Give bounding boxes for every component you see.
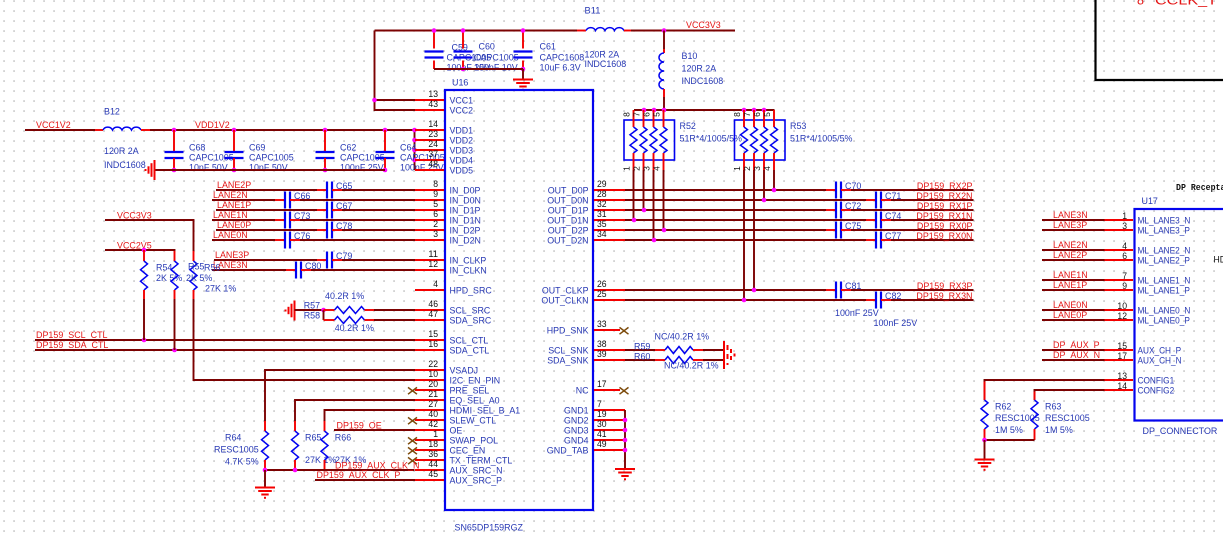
wire R60 to gnd	[703, 359, 724, 361]
wire HDMI_SEL_B_A1	[325, 410, 416, 421]
junction gnd rail x234	[232, 168, 237, 173]
no-connect X HPD_SNK pin 33	[620, 327, 629, 334]
capacitor C69	[225, 130, 294, 174]
svg-text:20: 20	[428, 379, 438, 389]
svg-text:C76: C76	[294, 231, 310, 242]
wire R52 pin1 drop	[633, 170, 635, 220]
junction C60 top	[461, 28, 466, 33]
svg-text:ML_LANE2_P: ML_LANE2_P	[1138, 256, 1190, 267]
wire decoupling ground rail	[155, 169, 386, 171]
junction DP159_RX2P to pack	[772, 188, 777, 193]
svg-text:5: 5	[762, 112, 772, 117]
svg-text:9: 9	[1122, 281, 1127, 291]
junction R57/R58 node	[321, 308, 326, 313]
svg-text:44: 44	[428, 459, 438, 469]
svg-text:100nF 25V: 100nF 25V	[340, 163, 384, 174]
wire R53 pin4 drop	[773, 170, 775, 190]
junction C59 top	[432, 28, 437, 33]
resistor R62	[981, 382, 1040, 441]
svg-text:C67: C67	[336, 201, 352, 212]
inductor B10	[659, 49, 723, 97]
wire VCC1V2	[25, 129, 95, 131]
wire AUX_SRC_N / resistor bottoms	[265, 469, 415, 471]
svg-text:3: 3	[1122, 221, 1127, 231]
junction rail x664	[662, 108, 667, 113]
svg-text:3: 3	[433, 229, 438, 239]
svg-text:32: 32	[597, 199, 607, 209]
svg-text:1: 1	[433, 429, 438, 439]
wire CONFIG1	[985, 380, 1105, 400]
ground below U16	[615, 469, 635, 479]
svg-text:C66: C66	[294, 191, 310, 202]
capacitor C81 value	[835, 308, 879, 319]
svg-text:41: 41	[597, 429, 607, 439]
svg-text:C72: C72	[845, 201, 861, 212]
junction GND pin 440	[623, 438, 628, 443]
svg-text:5: 5	[651, 112, 661, 117]
svg-text:AUX_CH_N: AUX_CH_N	[1138, 356, 1182, 367]
svg-text:36: 36	[428, 449, 438, 459]
net label LANE2N	[213, 190, 248, 201]
junction VDD column y160	[412, 158, 417, 163]
wire B10 bottom	[663, 97, 665, 110]
svg-text:DP_CONNECTOR: DP_CONNECTOR	[1143, 426, 1218, 437]
svg-text:23: 23	[428, 129, 438, 139]
resistor R65	[292, 421, 337, 470]
svg-text:1M 5%: 1M 5%	[1045, 425, 1073, 436]
svg-text:51R*4/1005/5%: 51R*4/1005/5%	[680, 134, 743, 145]
svg-text:R52: R52	[680, 121, 696, 132]
svg-text:R63: R63	[1045, 401, 1061, 412]
svg-text:U17: U17	[1142, 196, 1158, 207]
svg-text:19: 19	[597, 409, 607, 419]
svg-text:7: 7	[1122, 271, 1127, 281]
junction VDD column y140	[412, 138, 417, 143]
svg-text:4: 4	[433, 279, 438, 289]
svg-text:120R 2A: 120R 2A	[104, 146, 139, 157]
wire to ground	[522, 69, 524, 80]
net label LANE1N	[1053, 270, 1088, 281]
capacitor C72	[826, 201, 861, 219]
wire OUT row 200	[625, 199, 974, 201]
net label DP159_RX1P	[917, 201, 973, 212]
svg-text:B10: B10	[682, 51, 698, 62]
svg-text:DP159_RX0N: DP159_RX0N	[916, 231, 972, 242]
svg-text:21: 21	[428, 389, 438, 399]
net label DP159_AUX_CLK_N	[335, 461, 419, 472]
svg-text:10uF 6.3V: 10uF 6.3V	[540, 63, 582, 74]
svg-text:C71: C71	[885, 191, 901, 202]
ground below R64	[255, 488, 275, 498]
wire OUT row 210	[625, 209, 974, 211]
U16 left pin names	[450, 96, 521, 487]
svg-text:2K 5%: 2K 5%	[156, 273, 183, 284]
junction GND pin 420	[623, 418, 628, 423]
wire OUT row 290	[625, 289, 974, 291]
svg-text:6: 6	[1122, 251, 1127, 261]
svg-text:31: 31	[597, 209, 607, 219]
junction GND pin 450	[623, 448, 628, 453]
power net VCC3V3 top rail wire	[375, 30, 736, 32]
junction DP159_RX2N to pack	[762, 198, 767, 203]
wire LANE2P	[1042, 259, 1105, 261]
svg-text:C73: C73	[294, 211, 310, 222]
wire R52 pin4 drop	[663, 170, 665, 230]
svg-text:1: 1	[1122, 211, 1127, 221]
net label LANE0P	[1053, 310, 1087, 321]
wire VDD pin column	[414, 130, 416, 170]
junction R54 to SCL_CTL	[142, 338, 147, 343]
svg-text:10: 10	[1117, 301, 1127, 311]
svg-text:11: 11	[428, 249, 438, 259]
svg-text:10nF 50V: 10nF 50V	[189, 163, 228, 174]
svg-text:17: 17	[1117, 351, 1127, 361]
net label LANE3N	[213, 260, 248, 271]
junction gnd rail x325	[323, 168, 328, 173]
wire R58 to SDA_SRC	[374, 319, 415, 321]
junction GND pin 430	[623, 428, 628, 433]
svg-text:28: 28	[597, 189, 607, 199]
no-connect X left pin row 420	[408, 417, 417, 424]
junction R54 top	[142, 248, 147, 253]
svg-text:C65: C65	[336, 181, 352, 192]
svg-text:7: 7	[631, 112, 641, 117]
svg-text:18: 18	[428, 439, 438, 449]
wire VDD1V2 rail	[150, 129, 415, 131]
svg-text:C75: C75	[845, 221, 861, 232]
svg-text:C81: C81	[845, 281, 861, 292]
capacitor C73	[275, 211, 310, 229]
inductor B11	[577, 6, 631, 71]
svg-text:26: 26	[597, 279, 607, 289]
svg-text:10nF 50V: 10nF 50V	[249, 163, 288, 174]
resistor R58	[304, 311, 375, 334]
svg-text:6: 6	[752, 112, 762, 117]
net label VCC3V3 left	[117, 211, 152, 222]
U17 pin stubs	[1105, 220, 1134, 390]
junction B10 top	[662, 28, 667, 33]
wire R52 pin2 drop	[643, 170, 645, 210]
resistor R66	[321, 421, 367, 470]
junction DP159_RX0N to pack	[652, 238, 657, 243]
wire LANE0P	[216, 229, 415, 231]
IC U17 DP_CONNECTOR body	[1135, 196, 1223, 437]
wire to ground R64	[264, 470, 266, 488]
svg-text:R58: R58	[304, 311, 320, 322]
junction gnd rail x174	[172, 168, 177, 173]
svg-text:RESC1005: RESC1005	[1045, 413, 1090, 424]
svg-text:GND_TAB: GND_TAB	[547, 446, 589, 457]
svg-text:R66: R66	[335, 433, 351, 444]
resistor R59	[634, 331, 710, 353]
svg-text:14: 14	[1117, 381, 1127, 391]
svg-text:IN_D2N: IN_D2N	[450, 236, 482, 247]
svg-text:B11: B11	[585, 6, 601, 17]
svg-text:4: 4	[1122, 241, 1127, 251]
net label DP_AUX_N	[1053, 350, 1100, 361]
svg-text:SDA_SRC: SDA_SRC	[450, 316, 492, 327]
U17 pin names	[1138, 216, 1191, 397]
svg-text:C79: C79	[336, 251, 352, 262]
svg-text:R53: R53	[790, 121, 806, 132]
svg-text:15: 15	[1117, 341, 1127, 351]
wire OUT row 220	[625, 219, 974, 221]
wire LANE3N	[1042, 219, 1105, 221]
svg-text:120R 2A: 120R 2A	[682, 64, 717, 75]
svg-text:38: 38	[597, 339, 607, 349]
wire VCC3V3 to R56	[105, 220, 194, 251]
wire LANE3P	[214, 259, 415, 261]
net label DP159_RX3P	[917, 281, 973, 292]
wire DP_AUX_N	[1042, 359, 1105, 361]
svg-text:INDC1608: INDC1608	[104, 160, 146, 171]
wire OUT row 300	[625, 299, 974, 301]
net label VCC2V5	[117, 241, 152, 252]
svg-text:1M 5%: 1M 5%	[995, 425, 1023, 436]
net label LANE1N	[213, 210, 248, 221]
wire LANE3P	[1042, 229, 1105, 231]
wire R53 pin1 drop	[743, 170, 745, 300]
text DP Receptacle	[1176, 183, 1223, 193]
svg-text:OUT_D2N: OUT_D2N	[547, 236, 588, 247]
svg-text:NC: NC	[576, 386, 589, 397]
junction rail x754	[752, 108, 757, 113]
junction rail x644	[642, 108, 647, 113]
svg-text:R60: R60	[634, 351, 650, 362]
junction rail x744	[742, 108, 747, 113]
resistor R64	[214, 421, 269, 470]
no-connect X left pin row 460	[408, 457, 417, 464]
capacitor C59	[425, 31, 492, 74]
svg-text:SDA_CTL: SDA_CTL	[450, 346, 490, 357]
junction C61 top	[521, 28, 526, 33]
svg-text:OUT_CLKN: OUT_CLKN	[541, 296, 588, 307]
svg-text:ML_LANE0_P: ML_LANE0_P	[1138, 316, 1190, 327]
wire R58 branch	[323, 310, 325, 320]
capacitor C80	[286, 261, 321, 279]
svg-text:CONFIG2: CONFIG2	[1138, 386, 1175, 397]
net label DP159_AUX_CLK_P	[317, 470, 401, 481]
svg-text:1: 1	[732, 166, 742, 171]
svg-text:13: 13	[428, 89, 438, 99]
junction VDD rail x174	[172, 128, 177, 133]
net label LANE2N	[1053, 240, 1088, 251]
ground below C61	[513, 80, 533, 90]
junction DP159_RX1N to pack	[632, 218, 637, 223]
capacitor C70	[826, 181, 861, 199]
svg-text:8: 8	[621, 112, 631, 117]
svg-text:C80: C80	[305, 261, 321, 272]
wire to ground R62	[984, 440, 986, 460]
wire R59 to gnd	[703, 349, 724, 351]
svg-text:B12: B12	[104, 107, 120, 118]
U17 pin numbers	[1117, 211, 1127, 391]
wire OUT row 230	[625, 229, 974, 231]
junction DP159_RX3P to pack	[752, 288, 757, 293]
U16 right pin numbers	[597, 179, 607, 449]
svg-text:17: 17	[597, 379, 607, 389]
wire OE	[334, 429, 415, 431]
capacitor C60	[454, 31, 519, 74]
svg-text:48: 48	[428, 159, 438, 169]
capacitor C74	[866, 211, 902, 229]
svg-text:51R*4/1005/5%: 51R*4/1005/5%	[790, 134, 853, 145]
svg-text:46: 46	[428, 299, 438, 309]
svg-text:22: 22	[428, 359, 438, 369]
svg-text:R65: R65	[305, 433, 321, 444]
svg-text:VDD5: VDD5	[450, 166, 474, 177]
wire R53 pin3 drop	[763, 170, 765, 200]
svg-text:27K 1%: 27K 1%	[205, 284, 237, 295]
svg-text:10: 10	[428, 369, 438, 379]
resistor R63	[1031, 392, 1090, 441]
wire VCC2V5	[105, 250, 175, 251]
net label LANE2P	[1053, 250, 1087, 261]
wire SDA_CTL	[35, 349, 415, 351]
capacitor C62	[316, 130, 385, 174]
wire SDA_SNK	[625, 359, 655, 361]
svg-text:35: 35	[597, 219, 607, 229]
capacitor C66	[275, 191, 310, 209]
wire LANE1N	[212, 219, 415, 221]
svg-text:1: 1	[621, 166, 631, 171]
svg-text:100nF 25V: 100nF 25V	[874, 318, 918, 329]
wire R57 to SCL_SRC	[374, 309, 415, 311]
svg-text:U16: U16	[452, 78, 468, 89]
wire LANE1P	[1042, 289, 1105, 291]
svg-text:14: 14	[428, 119, 438, 129]
wire VCC1/VCC2 branch	[375, 31, 416, 111]
no-connect X left pin row 450	[408, 447, 417, 454]
net label DP159_RX1N	[916, 211, 972, 222]
svg-text:39: 39	[597, 349, 607, 359]
net label LANE0P	[217, 220, 251, 231]
svg-text:INDC1608: INDC1608	[585, 59, 627, 70]
wire LANE0N	[1042, 309, 1105, 311]
svg-text:43: 43	[428, 99, 438, 109]
svg-text:30: 30	[597, 419, 607, 429]
resistor pack R52	[621, 110, 742, 171]
U16 right pin stubs	[594, 190, 625, 450]
svg-text:37: 37	[428, 149, 438, 159]
junction VDD column y150	[412, 148, 417, 153]
svg-text:VCC2: VCC2	[450, 106, 474, 117]
capacitor C81	[826, 281, 861, 299]
svg-text:47: 47	[428, 309, 438, 319]
capacitor C68	[165, 130, 234, 174]
svg-text:2K 5%: 2K 5%	[186, 273, 213, 284]
net label DP159_RX2P	[917, 181, 973, 192]
junction C60 bottom	[461, 67, 466, 72]
svg-text:NC/40.2R 1%: NC/40.2R 1%	[664, 361, 719, 372]
wire cap bottoms to ground	[434, 68, 523, 70]
net label DP159_OE	[337, 421, 382, 432]
wire R52 pin3 drop	[653, 170, 655, 240]
wire resistor-pack supply rail	[634, 109, 775, 111]
svg-text:27: 27	[428, 399, 438, 409]
svg-text:12: 12	[428, 259, 438, 269]
wire LANE0P	[1042, 319, 1105, 321]
wire CONFIG2	[1035, 390, 1105, 400]
svg-text:24: 24	[428, 139, 438, 149]
svg-text:5: 5	[433, 199, 438, 209]
svg-text:45: 45	[428, 469, 438, 479]
net label LANE0N	[1053, 300, 1088, 311]
svg-text:6: 6	[433, 209, 438, 219]
resistor R54	[141, 250, 183, 299]
wire OUT row 240	[625, 239, 974, 241]
svg-text:RESC1005: RESC1005	[214, 445, 259, 456]
svg-text:SN65DP159RGZ: SN65DP159RGZ	[455, 523, 524, 534]
svg-text:C60: C60	[479, 42, 495, 53]
svg-text:25: 25	[597, 289, 607, 299]
no-connect X left pin row 440	[408, 437, 417, 444]
capacitor C79	[317, 251, 352, 269]
ground left of rail	[146, 160, 155, 180]
svg-text:8: 8	[433, 179, 438, 189]
svg-text:DP Recepta: DP Recepta	[1176, 183, 1223, 193]
wire B10 top	[663, 31, 665, 50]
wire LANE2N	[1042, 249, 1105, 251]
svg-text:NC/40.2R 1%: NC/40.2R 1%	[655, 331, 710, 342]
svg-text:INDC1608: INDC1608	[682, 76, 724, 87]
junction R64 bottom	[263, 468, 268, 473]
svg-text:40.2R 1%: 40.2R 1%	[335, 323, 375, 334]
net label VCC1V2	[36, 120, 71, 131]
wire gnd to R57	[295, 309, 324, 311]
junction gnd rail x385	[383, 168, 388, 173]
capacitor C71	[866, 191, 901, 209]
net label LANE3P	[1053, 220, 1087, 231]
junction VCC1 branch	[372, 98, 377, 103]
wire R54 to SCL wire	[143, 299, 145, 340]
junction DP159_RX3N to pack	[742, 298, 747, 303]
wire R62/R63 bottoms	[985, 439, 1035, 441]
no-connect X left pin row 390	[408, 387, 417, 394]
svg-text:7: 7	[597, 399, 602, 409]
junction C61 bottom	[521, 67, 526, 72]
svg-text:100nF 10V: 100nF 10V	[474, 63, 518, 74]
capacitor C82 value	[874, 318, 918, 329]
svg-text:40.2R 1%: 40.2R 1%	[325, 291, 365, 302]
svg-text:7: 7	[742, 112, 752, 117]
svg-text:C70: C70	[845, 181, 861, 192]
wire EQ_SEL_A0	[295, 400, 415, 421]
capacitor C64	[376, 130, 445, 174]
svg-text:2: 2	[433, 219, 438, 229]
net label LANE1P	[217, 200, 251, 211]
sheet box top right	[1096, 0, 1223, 80]
wire LANE1N	[1042, 279, 1105, 281]
inductor B12	[95, 107, 150, 172]
capacitor C78	[317, 221, 352, 239]
svg-text:CCLK_T: CCLK_T	[1155, 0, 1217, 8]
svg-text:C77: C77	[885, 231, 901, 242]
junction R55 to SDA_CTL	[172, 348, 177, 353]
junction VDD rail x234	[232, 128, 237, 133]
wire VSADJ	[265, 370, 415, 421]
junction DP159_RX0P to pack	[662, 228, 667, 233]
capacitor C77	[866, 231, 901, 249]
wire LANE0N	[212, 239, 415, 241]
svg-text:IN_CLKN: IN_CLKN	[450, 266, 487, 277]
net label DP159_RX0N	[916, 231, 972, 242]
resistor R60	[634, 351, 719, 371]
svg-text:8: 8	[1137, 0, 1144, 8]
junction R65 bottom	[293, 468, 298, 473]
svg-text:SDA_SNK: SDA_SNK	[547, 356, 589, 367]
svg-text:R64: R64	[225, 433, 242, 444]
